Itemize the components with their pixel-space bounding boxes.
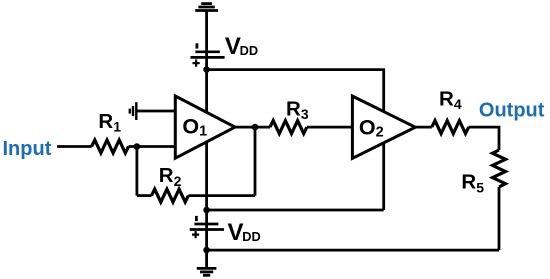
battery B1 plus mark (193, 60, 200, 67)
wire: O2 output to R4 (415, 126, 432, 129)
ground top (earth symbol above V_DD battery B1) (195, 4, 218, 11)
ground at O1 non-inverting input (rotated earth symbol) (130, 102, 137, 120)
node C: junction of B2 with bottom rail (203, 207, 210, 214)
battery B1 minus tick (195, 43, 198, 48)
svg-text:VDD: VDD (228, 219, 261, 246)
battery B2 (bottom V_DD source) plates (190, 224, 224, 230)
wire: node A down to feedback branch (135, 147, 138, 196)
svg-text:R5: R5 (461, 171, 484, 196)
svg-text:VDD: VDD (225, 33, 258, 60)
node: junction of B1 with positive rail (203, 66, 210, 73)
wire: O1 output to R3 (234, 126, 270, 129)
wire: feedback lower left segment (137, 194, 152, 197)
wire: O1 upper input to ground (136, 110, 175, 113)
node A: input node after R1 (134, 143, 141, 150)
svg-text:R1: R1 (98, 110, 121, 135)
op-amp O2 (352, 96, 415, 158)
battery B2 minus tick (195, 216, 198, 221)
resistor R4 (432, 121, 469, 134)
battery B1 (top V_DD source) plates (191, 52, 225, 58)
wire: bottom negative rail (207, 209, 384, 212)
wire: top positive rail to right side (207, 70, 384, 210)
wire: R5 down to bottom return corner (498, 187, 501, 250)
battery B2 plus mark (192, 231, 199, 238)
wire: R2 to feedback riser (188, 194, 255, 197)
resistor R3 (270, 121, 307, 134)
svg-text:Output: Output (479, 99, 545, 121)
node D: junction of B2 with output return wire (203, 247, 210, 254)
op-amp O1 (175, 96, 235, 158)
svg-text:Input: Input (3, 138, 52, 160)
ground bottom (earth symbol below B2) (197, 268, 217, 275)
resistor R1 (92, 140, 129, 153)
wire: bottom return to R5 (207, 249, 499, 252)
wire: main vertical rail x=206.6 from top ground through B1, O1, B2 to bottom ground (205, 11, 208, 269)
svg-text:R3: R3 (286, 97, 309, 122)
wire: R1 to O1 inverting input (129, 145, 176, 148)
node B: O1 output junction (252, 124, 259, 131)
resistor R5 (493, 150, 506, 187)
wire: R3 to O2 input (307, 126, 352, 129)
svg-text:R2: R2 (159, 164, 182, 189)
wire: R4 to output corner, down to R5 (469, 127, 499, 150)
wire: input lead (57, 145, 92, 148)
svg-text:R4: R4 (439, 87, 462, 112)
wire: feedback riser up to O1 output node (254, 127, 257, 196)
resistor R2 (152, 189, 189, 202)
